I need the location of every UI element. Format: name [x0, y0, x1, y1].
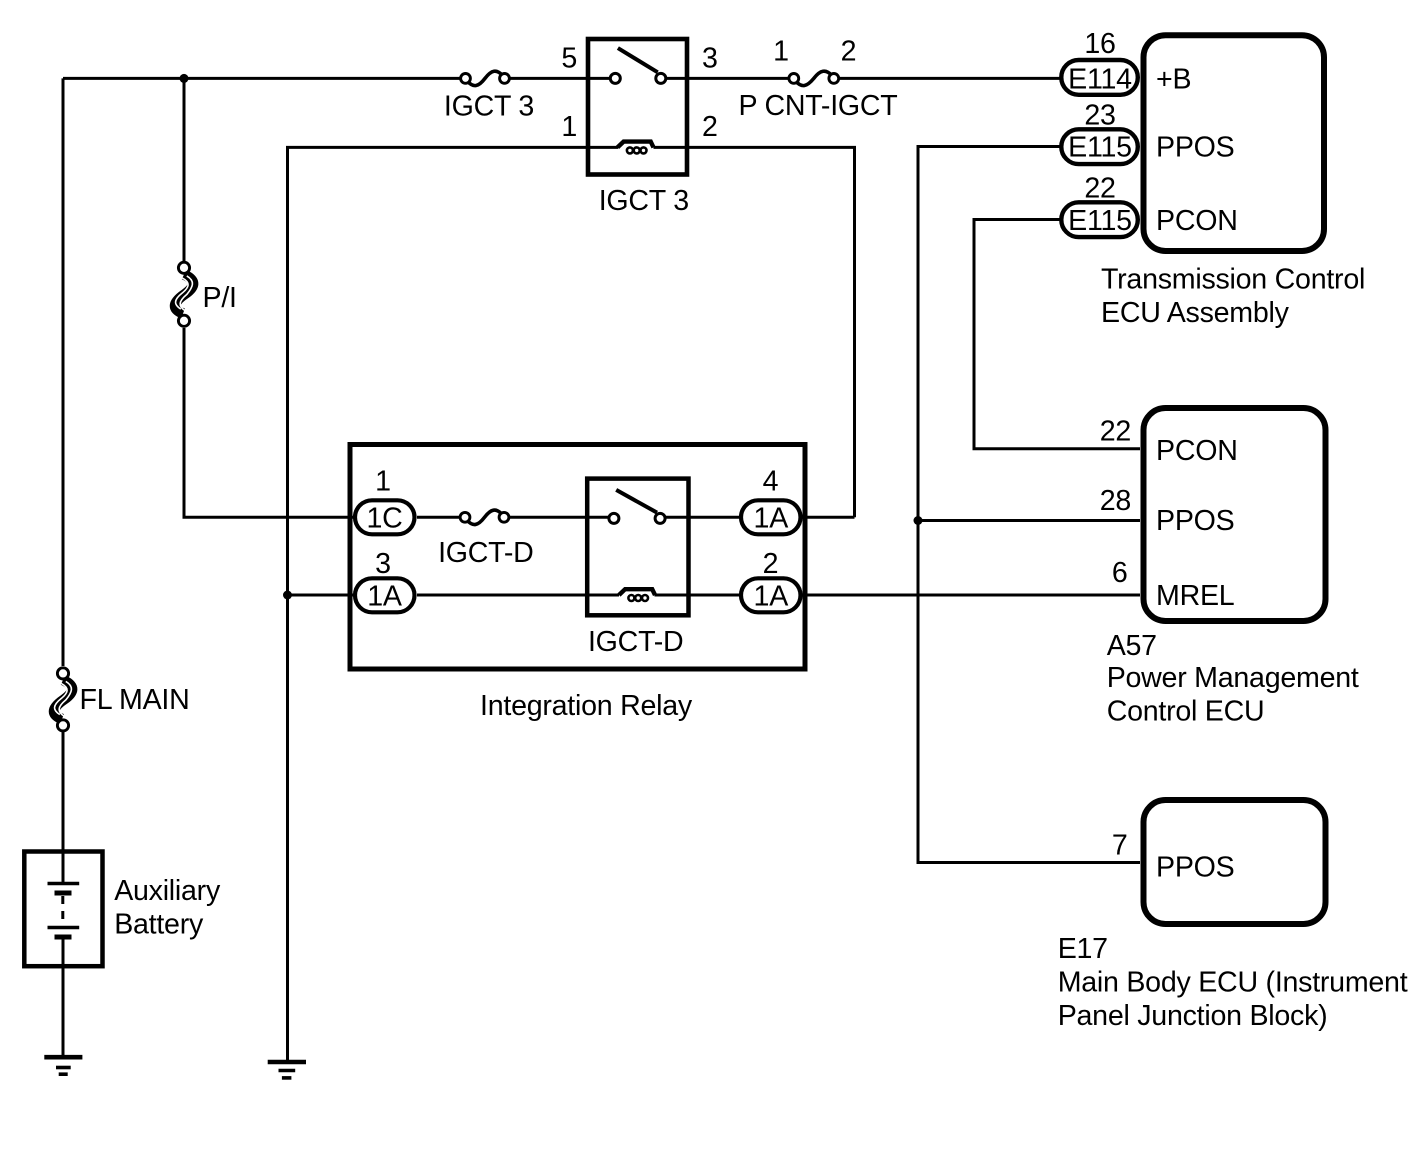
svg-text:Panel Junction Block): Panel Junction Block) [1058, 1000, 1328, 1032]
wire P/I branch vertical [183, 78, 186, 261]
svg-text:E115: E115 [1068, 205, 1132, 237]
svg-text:E17: E17 [1058, 933, 1108, 965]
svg-text:1: 1 [375, 466, 391, 498]
svg-text:3: 3 [375, 548, 391, 580]
svg-text:P CNT-IGCT: P CNT-IGCT [738, 90, 897, 122]
svg-text:E115: E115 [1068, 132, 1132, 164]
wire 1A pin2 to A57 MREL [801, 594, 1141, 597]
wire relay coil pin1 to left vertical [288, 147, 619, 1062]
fuse IGCT 3 [461, 71, 510, 85]
battery Auxiliary Battery box [24, 852, 102, 967]
svg-text:2: 2 [841, 36, 857, 68]
wire coil to 1A pin 2 [655, 594, 742, 597]
svg-text:7: 7 [1112, 830, 1128, 862]
svg-text:22: 22 [1100, 415, 1131, 447]
connector 1A pin 2 [741, 578, 801, 612]
svg-text:Power Management: Power Management [1107, 662, 1359, 694]
wire main top horizontal B+ feed [63, 77, 460, 80]
node junction row2 left [283, 591, 292, 600]
relay IGCT 3 coil [618, 142, 654, 154]
svg-text:3: 3 [702, 43, 718, 75]
connector E114 pin 16 [1061, 60, 1138, 95]
connector 1A pin 4 [741, 500, 801, 534]
A57 box [1144, 408, 1326, 621]
svg-text:P/I: P/I [203, 282, 237, 314]
svg-text:Control ECU: Control ECU [1107, 696, 1265, 728]
svg-text:Integration Relay: Integration Relay [480, 690, 693, 722]
svg-text:Transmission Control: Transmission Control [1101, 264, 1365, 296]
ground (integration relay) [268, 1062, 306, 1078]
svg-text:IGCT-D: IGCT-D [588, 626, 683, 658]
connector E115 pin 22 [1061, 202, 1138, 237]
Integration Relay outer box [350, 445, 805, 670]
svg-text:PPOS: PPOS [1156, 852, 1234, 884]
relay IGCT 3 box [588, 39, 687, 175]
svg-text:IGCT-D: IGCT-D [438, 537, 533, 569]
svg-text:Main Body ECU (Instrument: Main Body ECU (Instrument [1058, 967, 1408, 999]
svg-text:IGCT 3: IGCT 3 [444, 91, 534, 123]
fuse P CNT-IGCT [789, 71, 839, 85]
wire relay coil pin2 to vertical drop [654, 147, 855, 517]
svg-text:1C: 1C [366, 502, 402, 534]
svg-text:28: 28 [1100, 485, 1131, 517]
relay IGCT-D switch contact [609, 490, 665, 524]
svg-text:PPOS: PPOS [1156, 505, 1234, 537]
svg-text:16: 16 [1084, 28, 1115, 60]
fusible link P/I [175, 262, 193, 326]
node junction at P/I tap [180, 74, 189, 83]
node junction PPOS to A57 [914, 516, 923, 525]
svg-text:1A: 1A [754, 580, 790, 612]
connector E115 pin 23 [1061, 129, 1138, 164]
svg-text:IGCT 3: IGCT 3 [599, 185, 689, 217]
Transmission Control ECU Assembly box [1144, 35, 1325, 251]
svg-text:1A: 1A [367, 580, 403, 612]
svg-text:2: 2 [702, 111, 718, 143]
svg-text:2: 2 [763, 548, 779, 580]
wire left vertical battery feed [62, 78, 65, 666]
wire 1C to fuse IGCT-D [417, 516, 460, 519]
wire row2 through coil [417, 594, 619, 597]
wire PCON net [974, 220, 1140, 449]
relay IGCT-D coil [619, 589, 655, 601]
fuse IGCT-D [460, 510, 509, 524]
connector 1A pin 3 [355, 578, 415, 612]
fusible link FL MAIN [54, 668, 72, 731]
svg-text:1A: 1A [754, 502, 790, 534]
svg-text:PCON: PCON [1156, 435, 1238, 467]
svg-text:1: 1 [773, 36, 789, 68]
svg-text:A57: A57 [1107, 630, 1157, 662]
svg-text:PPOS: PPOS [1156, 132, 1234, 164]
svg-text:Auxiliary: Auxiliary [114, 875, 221, 907]
wire switch to 1A pin 4 [665, 516, 741, 519]
svg-text:6: 6 [1112, 557, 1128, 589]
svg-text:PCON: PCON [1156, 205, 1238, 237]
wire 1A pin4 corner up [801, 516, 855, 519]
svg-text:1: 1 [561, 111, 577, 143]
battery cell symbol [48, 884, 80, 938]
wire junction to 1A pin 3 [288, 594, 356, 597]
svg-text:4: 4 [763, 466, 779, 498]
wire PPOS to A57 pin 28 [918, 519, 1140, 522]
connector 1C pin 1 [355, 500, 415, 534]
ground (battery) [44, 1057, 82, 1074]
wire PPOS net vertical [918, 147, 1140, 863]
svg-text:ECU Assembly: ECU Assembly [1101, 297, 1290, 329]
E17 box [1144, 800, 1326, 924]
svg-text:23: 23 [1084, 99, 1115, 131]
svg-text:FL MAIN: FL MAIN [80, 684, 190, 716]
relay IGCT-D box [587, 479, 688, 616]
svg-text:+B: +B [1156, 64, 1191, 96]
svg-text:MREL: MREL [1156, 580, 1234, 612]
wire fuse to relay IGCT-D [509, 516, 608, 519]
svg-text:E114: E114 [1068, 64, 1132, 96]
svg-text:5: 5 [561, 43, 577, 75]
relay IGCT 3 switch contact [610, 48, 666, 83]
svg-text:22: 22 [1084, 172, 1115, 204]
svg-text:Battery: Battery [114, 909, 204, 941]
